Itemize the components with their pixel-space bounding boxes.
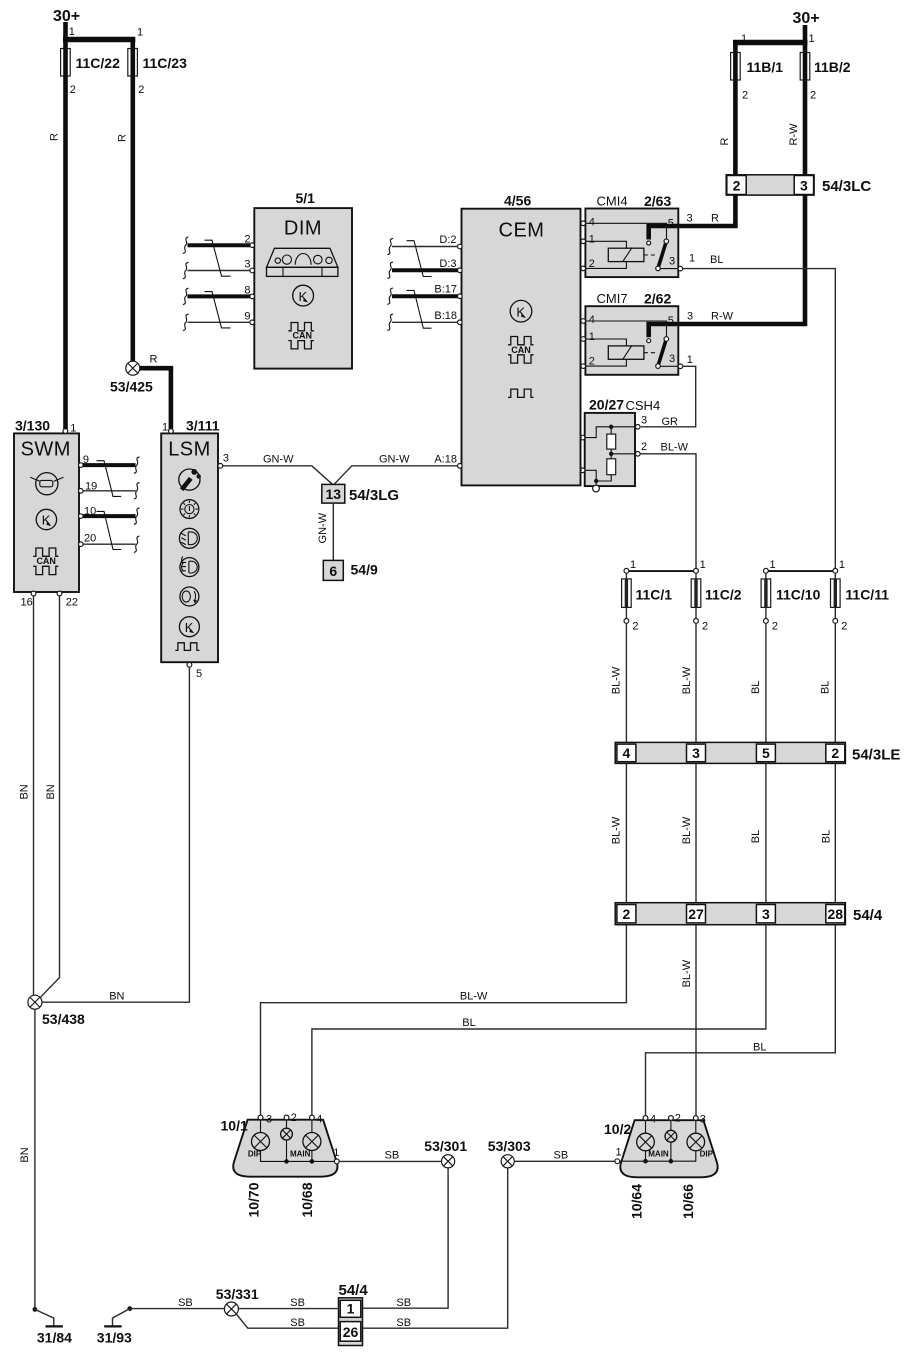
svg-text:5: 5 [196,668,202,680]
cable slash SWM 10/20 [97,511,122,549]
svg-text:10/68: 10/68 [299,1182,315,1217]
svg-text:10/2: 10/2 [604,1121,631,1137]
svg-text:1: 1 [839,559,845,571]
svg-text:2: 2 [742,90,748,102]
svg-text:53/438: 53/438 [42,1011,85,1027]
wire splice 53/331 to 54/4 pin 1 (SB) [238,1308,338,1310]
svg-text:R: R [49,133,61,141]
break symbol DIM 8 [183,288,189,304]
svg-text:MAIN: MAIN [648,1150,669,1159]
svg-text:1: 1 [347,1301,355,1317]
ground 31/93 [97,1309,132,1346]
wire splice 53/425 to LSM pin 1 (R) [140,368,171,429]
svg-text:BL: BL [820,830,832,843]
svg-text:1: 1 [700,559,706,571]
splice 53/303 [488,1138,531,1168]
svg-text:2: 2 [291,1112,297,1124]
svg-text:54/4: 54/4 [853,907,883,924]
svg-text:28: 28 [828,906,844,922]
svg-text:31/93: 31/93 [97,1330,132,1346]
wire fuse bridge 11C/10 - 11C/11 [766,570,835,572]
svg-text:3: 3 [641,415,647,427]
fuse 11C/23 [128,49,187,77]
module SWM 3/130 [14,418,97,609]
svg-text:3: 3 [669,353,675,365]
svg-text:BL: BL [819,681,831,694]
fuse 11C/10 [761,559,820,633]
svg-text:2: 2 [138,84,144,96]
svg-text:1: 1 [616,1147,622,1159]
connector 54/3LE [615,742,900,763]
wire splice 53/438 to ground 31/84 (BN) [34,1009,36,1307]
svg-text:SB: SB [290,1297,305,1309]
wire stub CEM B:18 [392,321,458,323]
wire stub DIM pin 8 (thick) [188,294,251,298]
wire SWM pin 22 to splice 53/438 (BN) [41,596,60,997]
break symbol SWM 9 [134,457,140,473]
svg-text:22: 22 [66,597,78,609]
svg-text:53/301: 53/301 [424,1138,467,1154]
svg-text:27: 27 [688,906,704,922]
connector 54/4 pins 1 and 26 [339,1282,369,1346]
svg-text:4: 4 [623,745,631,761]
svg-text:3: 3 [669,256,675,268]
svg-text:LSM: LSM [168,439,211,461]
wire LSM pin 5 to splice 53/438 (BN) [42,667,190,1002]
wire stub CEM to CSH4 pin 1 [581,437,583,439]
svg-text:BN: BN [19,1147,31,1162]
break symbol DIM 2 [183,237,189,253]
svg-text:BL: BL [462,1017,475,1029]
svg-text:BL-W: BL-W [681,959,693,987]
wire fuse 11B/2 feed down to 54/3LC pin 3 (R-W) [803,42,808,176]
wire lamp 10/1 pin 1 to splice 53/301 (SB) [339,1160,441,1162]
svg-text:BL-W: BL-W [681,666,693,694]
fuse 11C/11 [831,559,890,633]
wire 11C/11 pin 2 to 54/3LE pin 2 (BL) [834,623,836,742]
splice 53/331 [216,1286,259,1316]
svg-text:SB: SB [396,1317,411,1329]
svg-text:2: 2 [841,621,847,633]
svg-text:4: 4 [650,1114,656,1126]
wire stub CEM B:17 (thick) [392,294,458,298]
svg-text:R: R [150,354,158,366]
svg-text:53/303: 53/303 [488,1138,531,1154]
connector 54/4 (main strip) [615,903,883,925]
svg-text:3: 3 [223,453,229,465]
wire splice 53/331 to 54/4 pin 26 (SB) [236,1314,338,1328]
wire stub DIM pin 2 (thick) [188,243,251,247]
wire stub SWM pin 19 [83,490,136,492]
svg-text:4: 4 [316,1114,322,1126]
svg-text:GR: GR [662,416,679,428]
svg-text:1: 1 [589,331,595,343]
wire 54/3LE pin 4 to 54/4 pin 2 (BL-W) [625,763,627,902]
wire stub SWM pin 20 [83,543,136,545]
svg-text:2/63: 2/63 [644,193,671,209]
wire splice 53/301 to 54/4 pin 1 (SB) [363,1168,449,1308]
svg-text:3: 3 [800,178,808,194]
lamp 10/1 (left headlamp) [221,1112,340,1177]
svg-text:CAN: CAN [511,345,531,355]
svg-text:1: 1 [589,234,595,246]
svg-text:CMI4: CMI4 [597,194,628,209]
wire CSH4 pin 2 to fuses 11C/1 and 11C/2 (BL-W) [640,454,696,569]
svg-text:10/66: 10/66 [680,1184,696,1219]
svg-text:3: 3 [692,745,700,761]
wire 11C/2 pin 2 to 54/3LE pin 3 (BL-W) [695,623,697,742]
fuse 11B/2 [800,53,851,81]
svg-text:1: 1 [809,33,815,45]
svg-text:11B/2: 11B/2 [814,59,851,75]
svg-text:BL-W: BL-W [681,816,693,844]
svg-text:54/9: 54/9 [351,562,378,578]
fuse 11C/22 [61,49,120,77]
svg-text:53/425: 53/425 [110,379,153,395]
svg-text:3/130: 3/130 [15,418,50,434]
wire stub CEM D:3 (thick) [392,268,458,272]
wire 54/4 pin 2 to lamp 10/1 pin 3 (BL-W) [261,925,627,1116]
svg-text:DIM: DIM [284,218,322,240]
svg-text:R: R [719,137,731,145]
svg-text:2: 2 [632,621,638,633]
svg-text:2/62: 2/62 [644,291,671,307]
node 30+ (left battery feed) [53,8,80,25]
svg-text:54/3LE: 54/3LE [852,747,900,764]
wire 54/3LG pin 13 to 54/9 pin 6 (GN-W) [332,503,334,560]
svg-text:BN: BN [109,991,124,1003]
svg-text:10/1: 10/1 [221,1118,248,1134]
svg-text:CMI7: CMI7 [597,291,628,306]
svg-text:3: 3 [762,906,770,922]
break symbol D:2 [387,238,393,254]
svg-text:54/3LG: 54/3LG [349,487,399,504]
svg-text:3/111: 3/111 [186,418,220,434]
svg-text:B:18: B:18 [434,310,457,322]
svg-text:CAN: CAN [293,331,313,341]
svg-text:16: 16 [21,597,33,609]
svg-text:5: 5 [668,218,674,230]
wire stub SWM pin 9 (thick) [83,463,136,467]
svg-text:BL: BL [750,681,762,694]
wire relay 2/62 pin 3 to splitter 20/27 pin 3 (GR) [641,366,696,427]
svg-text:R-W: R-W [711,311,734,323]
svg-text:11C/1: 11C/1 [636,587,673,603]
svg-text:1: 1 [69,26,75,38]
svg-text:SB: SB [554,1150,569,1162]
svg-text:4: 4 [589,314,595,326]
cable slash DIM 2/3 [205,240,231,276]
fuse 11C/1 [622,559,673,633]
svg-text:4/56: 4/56 [504,193,531,209]
svg-text:3: 3 [244,259,250,271]
svg-text:R: R [116,134,128,142]
break symbol DIM 9 [183,314,189,330]
svg-text:SWM: SWM [21,439,71,461]
svg-text:R: R [711,213,719,225]
wire 30+ feed stub left [63,22,68,39]
svg-text:DIP: DIP [700,1150,714,1159]
break symbol SWM 20 [134,536,140,552]
connector 54/3LC [726,175,871,195]
wire fuse bridge 11C/1 - 11C/2 [626,570,696,572]
break symbol DIM 3 [183,262,189,278]
cable slash SWM 9/19 [97,461,122,497]
svg-text:BL-W: BL-W [460,991,488,1003]
svg-text:BL-W: BL-W [610,816,622,844]
svg-text:13: 13 [326,486,342,502]
svg-text:1: 1 [687,354,693,366]
svg-text:3: 3 [700,1114,706,1126]
splice 53/438 [28,995,85,1027]
wire 54/3LE pin 3 to 54/4 pin 27 (BL-W) [695,763,697,902]
svg-text:SB: SB [178,1297,193,1309]
module DIM 5/1 [244,190,352,369]
svg-text:BL-W: BL-W [610,666,622,694]
svg-text:CAN: CAN [36,556,56,566]
wire splice 53/303 to 54/4 pin 26 (SB) [363,1168,508,1328]
fuse 11C/2 [691,559,742,633]
splitter 20/27 CSH4 [580,397,660,492]
svg-text:3: 3 [687,213,693,225]
svg-text:BN: BN [18,784,30,799]
relay U2/62 CMI7 [581,291,683,375]
connector 54/3LG pin 13 [322,484,399,504]
svg-text:R-W: R-W [788,123,800,146]
wire top-left bus bar [63,37,135,42]
svg-text:11C/11: 11C/11 [845,587,889,603]
wire stub DIM pin 3 [188,270,251,272]
svg-text:DIP: DIP [248,1150,262,1159]
break symbol B:17 [387,288,393,304]
wire 54/3LC pin 3 to relay 2/62 pin 5 (R-W) [649,195,805,339]
svg-text:54/3LC: 54/3LC [822,178,871,195]
node 30+ (right battery feed) [793,10,820,27]
wire 54/4 pin 27 to lamp 10/2 pin 3 (BL-W) [695,925,697,1116]
module LSM 3/111 [161,418,229,681]
svg-text:1: 1 [770,559,776,571]
wire 54/3LE pin 2 to 54/4 pin 28 (BL) [834,763,836,902]
wire stub CEM D:2 [392,246,458,248]
wire fuse 11C/23 feed down to splice 53/425 (R) [131,39,136,362]
svg-text:1: 1 [333,1147,339,1159]
svg-text:BL: BL [750,830,762,843]
svg-text:2: 2 [589,356,595,368]
svg-text:54/4: 54/4 [339,1282,369,1299]
svg-text:10/70: 10/70 [246,1182,262,1217]
module CEM 4/56 [434,193,580,486]
wire 54/4 pin 28 to lamp 10/2 pin 4 (BL) [646,925,836,1116]
wire 54/3LC pin 2 to relay 2/63 pin 5 (R) [649,195,736,241]
wire 11C/10 pin 2 to 54/3LE pin 5 (BL) [765,623,767,742]
svg-text:GN-W: GN-W [263,454,294,466]
wire LSM pin 3 / Y-split to connector 54/3LG pin 13 (GN-W) [223,466,333,485]
svg-text:CEM: CEM [499,220,545,242]
splice 53/301 [424,1138,467,1168]
svg-text:2: 2 [772,621,778,633]
svg-text:A:18: A:18 [434,453,457,465]
svg-text:MAIN: MAIN [290,1150,311,1159]
wire stub SWM pin 10 (thick) [83,514,136,518]
junction 31/84 dot [33,1307,38,1312]
relay U2/63 CMI4 [581,193,683,277]
svg-text:5: 5 [668,315,674,327]
svg-text:GN-W: GN-W [317,512,329,543]
wire stub DIM pin 9 [188,321,251,323]
svg-text:30+: 30+ [793,10,820,27]
svg-text:2: 2 [623,906,631,922]
svg-text:BL: BL [753,1041,766,1053]
break symbol SWM 10 [134,508,140,524]
junction 31/93 dot [127,1306,132,1311]
svg-text:11B/1: 11B/1 [747,59,784,75]
wire fuse 11C/22 feed down to SWM pin 1 (R) [63,39,68,429]
svg-text:5: 5 [762,745,770,761]
break symbol B:18 [387,314,393,330]
svg-text:11C/2: 11C/2 [705,587,742,603]
svg-text:2: 2 [589,258,595,270]
svg-text:1: 1 [741,33,747,45]
svg-text:31/84: 31/84 [37,1330,72,1346]
svg-text:6: 6 [329,563,337,579]
wire splice 53/303 to lamp 10/2 pin 1 (SB) [514,1160,615,1162]
svg-text:3: 3 [266,1114,272,1126]
splice 53/425 [110,361,153,394]
ground 31/84 [35,1309,72,1345]
svg-text:2: 2 [733,178,741,194]
svg-text:20/27: 20/27 [589,397,624,413]
svg-text:11C/10: 11C/10 [776,587,821,603]
wire 30+ feed stub right [803,25,808,42]
svg-text:SB: SB [385,1150,400,1162]
svg-text:D:3: D:3 [439,258,456,270]
fuse 11B/1 [731,53,784,81]
svg-text:1: 1 [689,253,695,265]
cable slash DIM 8/9 [205,292,231,328]
svg-text:BL: BL [710,254,723,266]
svg-text:5/1: 5/1 [296,190,316,206]
svg-text:BL-W: BL-W [661,442,689,454]
svg-text:9: 9 [244,311,250,323]
svg-text:2: 2 [831,745,839,761]
wire relay 2/63 pin 3 to fuse 11C/11 pin 1 (BL) [683,269,836,569]
wire top-right bus bar [733,40,808,45]
wire Y-split to CEM pin A:18 (GN-W) [334,466,458,485]
svg-text:20: 20 [84,533,96,545]
wire fuse 11B/1 feed down to 54/3LC pin 2 (R) [733,42,738,176]
svg-text:2: 2 [641,441,647,453]
svg-text:53/331: 53/331 [216,1286,259,1302]
svg-text:B:17: B:17 [434,284,457,296]
svg-text:1: 1 [630,559,636,571]
svg-text:11C/23: 11C/23 [143,55,188,71]
connector 54/9 pin 6 [323,560,378,580]
wire 31/93 to splice 53/331 (SB) [130,1308,225,1310]
svg-text:1: 1 [162,422,168,434]
svg-text:11C/22: 11C/22 [76,55,121,71]
break symbol D:3 [387,262,393,278]
svg-text:4: 4 [589,217,595,229]
wire SWM pin 16 to splice 53/438 (BN) [33,596,35,996]
svg-text:BN: BN [45,784,57,799]
svg-text:D:2: D:2 [439,234,456,246]
svg-text:SB: SB [290,1317,305,1329]
lamp 10/2 (right headlamp) [604,1113,718,1178]
wire 54/3LE pin 5 to 54/4 pin 3 (BL) [765,763,767,902]
wire stub CEM to CSH4 pin 2 [581,469,583,471]
svg-text:1: 1 [137,27,143,39]
svg-text:2: 2 [675,1113,681,1125]
svg-text:2: 2 [810,90,816,102]
svg-text:3: 3 [687,311,693,323]
cable slash B:17/B:18 [407,290,432,328]
break symbol SWM 19 [134,483,140,499]
svg-text:2: 2 [702,621,708,633]
cable slash D:2/D:3 [407,241,432,277]
svg-text:26: 26 [343,1324,359,1340]
wire 11C/1 pin 2 to 54/3LE pin 4 (BL-W) [625,623,627,742]
svg-text:SB: SB [396,1297,411,1309]
svg-text:CSH4: CSH4 [626,398,661,413]
svg-text:GN-W: GN-W [379,454,410,466]
wire 54/4 pin 3 to lamp 10/1 pin 4 (BL) [312,925,766,1116]
svg-text:10/64: 10/64 [629,1184,645,1219]
svg-text:2: 2 [70,84,76,96]
